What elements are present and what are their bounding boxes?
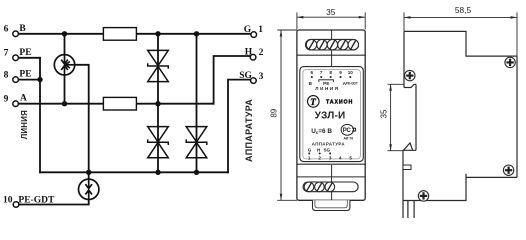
wire GDT1 side arm: [75, 65, 89, 173]
wire PE terminal 7: [18, 57, 40, 59]
dimension 58,5 (depth): [404, 12, 517, 55]
rail recess face: [415, 84, 417, 150]
dimension 35 (front width): [297, 12, 365, 29]
resistor R2: [103, 97, 136, 110]
top terminal capsule: [306, 39, 359, 50]
logo circle: [308, 96, 320, 108]
svg-text:PE: PE: [19, 48, 31, 58]
terminal 7 circle: [13, 55, 19, 61]
RST cert mark: [341, 124, 356, 135]
svg-text:=6 В: =6 В: [318, 128, 332, 135]
svg-text:B: B: [19, 24, 26, 34]
resistor R1: [103, 28, 136, 41]
label output names G H SG: [308, 147, 331, 152]
wire B top rail: [18, 33, 251, 35]
wire PE terminal 8: [18, 79, 40, 81]
left upper edge: [403, 31, 405, 87]
svg-text:10: 10: [348, 70, 354, 75]
wire H link: [214, 56, 251, 104]
clip leg 1: [407, 201, 409, 219]
svg-text:89: 89: [269, 108, 278, 117]
svg-text:PE-GDT: PE-GDT: [346, 82, 358, 86]
terminal 10 circle: [13, 202, 19, 208]
junction B rail / FV1: [62, 31, 67, 36]
svg-text:2: 2: [318, 156, 321, 161]
bottom terminal section divider: [297, 163, 365, 165]
TVS suppressor VD2 (bidirectional): [148, 127, 169, 158]
junction PE node: [37, 77, 42, 82]
svg-text:УЗЛ-И: УЗЛ-И: [315, 110, 346, 121]
junction A rail / FV1: [62, 101, 67, 106]
arrester FV2 (gas discharge tube): [79, 179, 99, 199]
terminal 9 circle: [13, 101, 19, 107]
svg-text:ЛИНИЯ: ЛИНИЯ: [315, 86, 339, 91]
wire PE vertical bus: [39, 58, 41, 173]
clip release tab: [403, 165, 411, 170]
svg-text:PE-GDT: PE-GDT: [18, 195, 55, 205]
junction ground bus / VD3: [194, 170, 199, 175]
label terminal ticks: [311, 76, 351, 78]
TVS suppressor VD3 (bidirectional): [186, 127, 207, 158]
svg-text:2: 2: [259, 48, 264, 58]
label terminal numbers 1-5: [308, 156, 352, 161]
label plate outer: [300, 67, 364, 162]
svg-text:7: 7: [4, 49, 9, 59]
terminal 8 circle: [13, 77, 19, 83]
rail hook upper lip: [404, 84, 416, 87]
svg-text:6: 6: [311, 70, 314, 75]
enclosure side profile: [403, 31, 517, 218]
top terminal section divider: [297, 54, 365, 56]
svg-text:10: 10: [3, 195, 13, 205]
svg-text:SG: SG: [239, 71, 252, 81]
output ticks: [308, 153, 331, 155]
svg-text:3: 3: [329, 156, 332, 161]
svg-text:9: 9: [4, 95, 9, 105]
svg-text:4: 4: [339, 156, 342, 161]
wire ground bus: [40, 171, 228, 173]
wire TVS column 2: [196, 34, 198, 173]
svg-text:8: 8: [329, 70, 332, 75]
svg-text:6: 6: [4, 25, 9, 35]
junction A rail / VD2: [155, 101, 160, 106]
label terminal numbers 6-10: [311, 70, 354, 75]
svg-text:АППАРАТУРА: АППАРАТУРА: [312, 141, 346, 146]
wire GDT1 top: [64, 34, 66, 55]
svg-text:ЛИНИЯ: ЛИНИЯ: [20, 110, 29, 139]
bottom foot outer: [313, 200, 350, 210]
junction B rail / VD1: [155, 31, 160, 36]
svg-text:ТАХИОН: ТАХИОН: [326, 99, 353, 105]
svg-text:H: H: [245, 48, 253, 58]
svg-text:8: 8: [4, 70, 9, 80]
svg-text:7: 7: [320, 70, 323, 75]
bottom block seam: [331, 165, 333, 200]
svg-text:35: 35: [326, 7, 336, 17]
wire A middle rail: [18, 103, 213, 105]
terminal 3 circle: [251, 78, 257, 84]
enclosure body front: [297, 30, 365, 200]
svg-text:35: 35: [379, 109, 388, 118]
wire SG link: [228, 80, 251, 173]
svg-text:АППАРАТУРА: АППАРАТУРА: [244, 99, 254, 162]
svg-text:PE: PE: [19, 70, 31, 80]
svg-text:3: 3: [259, 72, 264, 82]
screw B (right top): [505, 57, 515, 67]
right edge: [516, 56, 518, 177]
bottom right edge: [466, 174, 517, 178]
svg-text:58,5: 58,5: [455, 5, 472, 15]
svg-text:A: A: [20, 94, 27, 104]
junction ground bus / VD2: [155, 170, 160, 175]
svg-text:АИ 76: АИ 76: [343, 136, 353, 140]
terminal 1 circle: [251, 32, 257, 38]
svg-text:5: 5: [349, 156, 352, 161]
top terminal screws: [306, 40, 358, 50]
top block seam: [331, 30, 333, 67]
junction ground bus / FV2: [86, 170, 91, 175]
clip leg 2: [413, 201, 415, 219]
top edge: [404, 31, 517, 56]
bottom foot inner: [315, 200, 347, 208]
terminal 2 circle: [250, 54, 256, 60]
svg-text:1: 1: [258, 25, 263, 35]
junction B rail / VD3 column: [194, 31, 199, 36]
PE bracket: [319, 80, 334, 82]
screw A (left top): [405, 70, 415, 80]
left lower edge: [402, 150, 404, 218]
svg-text:Т: Т: [310, 97, 316, 107]
label plate inner: [303, 70, 361, 159]
svg-text:G: G: [308, 147, 312, 152]
bottom inner divider: [297, 176, 365, 178]
svg-text:G: G: [244, 25, 252, 35]
svg-text:1: 1: [308, 156, 311, 161]
svg-text:РС: РС: [343, 128, 352, 134]
bottom terminal capsule: [303, 182, 358, 192]
screw D (left bottom): [418, 191, 428, 201]
lower step: [403, 177, 466, 200]
svg-text:9: 9: [339, 70, 342, 75]
TVS suppressor VD1 (bidirectional): [148, 50, 169, 81]
wire TVS column 1: [157, 34, 159, 173]
label signal names row: [309, 81, 347, 86]
arrester FV1 (three-electrode gas discharge tube): [54, 55, 74, 75]
wire GDT2 top: [88, 172, 90, 179]
dimension 35 (rail recess): [388, 84, 405, 150]
wire GDT1 bottom: [64, 75, 66, 104]
dimension 89 (front height): [277, 30, 297, 200]
terminal 6 circle: [13, 31, 19, 37]
svg-text:SG: SG: [323, 147, 330, 152]
wire GDT2 bottom: [19, 199, 89, 204]
rail lower hook triangle: [403, 143, 416, 150]
screw C (right bottom): [503, 165, 513, 175]
bottom terminal screws: [304, 182, 334, 192]
